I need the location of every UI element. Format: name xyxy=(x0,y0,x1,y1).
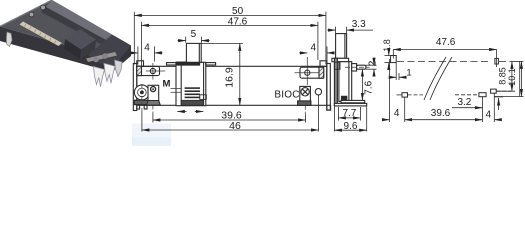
photo: flat terminal 3 xyxy=(115,60,123,77)
photo: knob block front face xyxy=(80,40,96,60)
dim 47.6 ext right xyxy=(317,22,319,60)
side knob inner line xyxy=(344,34,346,59)
photo: groove band xyxy=(41,7,126,56)
right mounting lug xyxy=(300,67,324,78)
side body xyxy=(339,62,352,102)
dim 7.7 line xyxy=(338,117,360,119)
front view labels xyxy=(144,6,316,132)
fp pad bottom-right 1 xyxy=(479,93,486,97)
dim 3.3 arrows xyxy=(327,29,335,31)
photo: left end bevel xyxy=(0,0,52,27)
photo: knob block top xyxy=(65,29,96,50)
fp pad top-left xyxy=(391,56,397,63)
dim 46 line xyxy=(142,129,319,131)
svg-text:4: 4 xyxy=(311,42,317,53)
dim 50 ext left xyxy=(133,12,135,65)
fp dim 4 left arrow xyxy=(383,119,389,121)
side knob xyxy=(336,34,347,59)
travel arrow left xyxy=(177,111,186,113)
fp pad top-right xyxy=(495,58,499,64)
blue watermark patch xyxy=(132,124,171,147)
washer outer circle xyxy=(134,85,149,100)
svg-text:4: 4 xyxy=(144,43,150,54)
knob xyxy=(186,43,201,62)
right bracket foot xyxy=(327,105,331,110)
side pin base xyxy=(352,64,357,71)
photo: screw 1 xyxy=(29,12,34,17)
dim 9.6 ticks xyxy=(333,106,335,131)
body outline xyxy=(137,66,327,105)
carriage wing left xyxy=(167,63,177,65)
side pin blade xyxy=(357,65,366,69)
fp dim 1 ticks xyxy=(395,63,397,80)
svg-text:3.3: 3.3 xyxy=(352,19,366,30)
footprint labels xyxy=(382,37,517,121)
fp dim 10.1 exts xyxy=(511,60,523,62)
svg-text:4: 4 xyxy=(394,108,400,119)
svg-text:1.8: 1.8 xyxy=(382,39,392,52)
dim 5 arrow left xyxy=(178,40,186,42)
right bracket top tab xyxy=(320,61,327,67)
carriage bottom strip xyxy=(181,100,203,105)
washer center dot xyxy=(140,91,144,95)
dim 7.6 line xyxy=(361,69,363,100)
svg-text:2: 2 xyxy=(368,60,379,66)
photo: left terminal pin xyxy=(7,32,13,47)
fp dim 1.8 exts xyxy=(385,55,391,57)
fp dim 1 arrows xyxy=(390,76,396,78)
fp pad bl ext down xyxy=(404,97,406,122)
photo: end bracket block xyxy=(88,35,131,70)
fp ext h bottom right xyxy=(494,96,503,98)
washer leg 1 xyxy=(137,105,140,109)
left bracket top tab xyxy=(137,61,144,67)
side pin centerline xyxy=(345,66,370,68)
side labels xyxy=(342,19,378,132)
fp pad bl centerline xyxy=(397,94,403,96)
photo: fork terminal 1 xyxy=(94,67,105,87)
right bracket outer plate xyxy=(327,64,331,111)
photo: slide potentiometer body top face xyxy=(0,0,131,58)
dim 4 right tick xyxy=(326,46,328,63)
dim 50 line xyxy=(134,14,326,16)
fp dim 3.2 line xyxy=(452,107,483,109)
right lug centerline v xyxy=(306,57,308,85)
right pin dashed centerline xyxy=(304,106,306,115)
left lug centerline h xyxy=(146,70,165,72)
right pin hole cross 2 xyxy=(302,89,308,95)
svg-text:BIOC: BIOC xyxy=(274,89,299,100)
right pin flare xyxy=(298,101,311,106)
washer middle circle xyxy=(138,88,147,97)
svg-text:4: 4 xyxy=(486,109,492,120)
left terminal pin body xyxy=(148,85,159,102)
photo: screw 2 xyxy=(41,5,46,10)
fp break line 2 xyxy=(430,57,452,100)
carriage wing right xyxy=(206,63,216,65)
slider carriage box xyxy=(176,62,206,105)
fp dim 4 right arrows xyxy=(494,119,501,121)
fp left edge xyxy=(389,59,391,122)
svg-text:3.2: 3.2 xyxy=(457,97,471,108)
left lug hole xyxy=(150,68,155,73)
side flange xyxy=(332,58,349,61)
left lug centerline v xyxy=(152,63,154,80)
left pin dashed centerline xyxy=(152,106,154,115)
dim 4 left tick a xyxy=(137,46,139,64)
dim 47.6 line xyxy=(141,24,318,26)
svg-text:5: 5 xyxy=(191,29,197,40)
dim 50 ext right xyxy=(325,12,327,65)
photo: far rail band xyxy=(46,0,131,51)
dim 46 ext left xyxy=(141,112,143,132)
fp right edge xyxy=(519,61,521,96)
dim 46 ext right xyxy=(317,95,319,132)
side bracket plate xyxy=(334,58,337,106)
svg-text:50: 50 xyxy=(232,6,244,17)
fp break line 1 xyxy=(424,57,446,100)
thin lines: centerlines, extensions xyxy=(142,57,319,115)
dim 7.7 ticks xyxy=(337,107,339,121)
svg-text:9.6: 9.6 xyxy=(344,121,358,132)
dim 16.9 line xyxy=(239,43,241,105)
wiper step xyxy=(200,95,207,100)
fp pad bottom-right 2 xyxy=(491,89,497,93)
carriage inner wall left xyxy=(180,62,182,105)
side fold dark block xyxy=(342,96,347,100)
side bottom plate xyxy=(334,103,366,106)
fp pad br exts down xyxy=(482,97,484,122)
photo: track stripe xyxy=(20,22,63,47)
photo: body right end face xyxy=(110,46,131,73)
fp dim 10.1 line xyxy=(520,61,522,96)
photo: knob block left face xyxy=(64,39,81,59)
dim 39.6 ext left xyxy=(152,114,154,123)
body round hole right xyxy=(315,89,321,95)
dim 16.9 ext top xyxy=(201,42,243,44)
dim 39.6 line xyxy=(153,119,306,121)
dim 4 right arrows xyxy=(299,52,307,54)
svg-text:47.6: 47.6 xyxy=(228,17,248,28)
dim 5 arrow right xyxy=(201,40,209,42)
fp top edge dashed xyxy=(397,60,491,62)
right lug hatch strip xyxy=(319,67,324,78)
svg-text:46: 46 xyxy=(229,120,241,132)
fp pad bottom-left xyxy=(402,93,408,97)
svg-text:10.1: 10.1 xyxy=(507,68,517,86)
side view dimensions xyxy=(327,27,376,132)
carriage inner wall right xyxy=(203,62,205,105)
fp dim 39.6 line xyxy=(405,119,483,121)
photo: rivet 1 xyxy=(93,57,99,63)
fp dim 47.6 ext right xyxy=(496,50,498,68)
wiper hatch block xyxy=(185,87,200,98)
knob inner line xyxy=(198,43,200,62)
left terminal pin hole xyxy=(151,87,156,92)
dim 9.6 line xyxy=(334,129,366,131)
left terminal pin flare xyxy=(147,101,161,106)
svg-text:16.9: 16.9 xyxy=(224,67,236,88)
fp up arrow xyxy=(498,98,500,110)
fp bottom edge xyxy=(494,96,520,98)
dim 39.6 ext right xyxy=(305,115,307,123)
fp dim 47.6 line xyxy=(393,49,496,51)
dim 4 left arrows xyxy=(130,52,138,54)
svg-text:M: M xyxy=(163,78,171,89)
photo: rivet 2 xyxy=(102,53,108,59)
dim 4 left tick b xyxy=(153,46,155,61)
fp dim 47.6 ext left xyxy=(392,50,394,59)
washer dashed centerline xyxy=(141,84,143,112)
side foot strip xyxy=(341,100,365,102)
photo: end bracket edge highlight xyxy=(86,52,117,62)
left lug hatch strip xyxy=(137,66,142,75)
dim 5 tick left xyxy=(185,37,187,43)
left bracket outer plate xyxy=(133,64,137,111)
svg-text:47.6: 47.6 xyxy=(436,37,456,48)
travel arrow right xyxy=(195,111,204,113)
side body inner line xyxy=(348,62,350,102)
right pin hole cross 1 xyxy=(302,89,308,95)
dim 47.6 ext left xyxy=(140,22,142,66)
fp dim 8.85 line xyxy=(511,61,513,91)
photo: body front face xyxy=(0,27,112,73)
right terminal pin hole circle xyxy=(301,88,309,96)
photo: track dashes xyxy=(25,24,57,43)
dim 2 ext lines xyxy=(366,64,377,66)
dim 3.3 ticks xyxy=(335,27,337,33)
svg-text:7.6: 7.6 xyxy=(364,80,375,94)
fp pads dashes xyxy=(455,94,479,96)
side fold detail top xyxy=(334,62,340,69)
left terminal pin hole dot xyxy=(152,88,154,90)
svg-text:7.7: 7.7 xyxy=(342,108,356,119)
right terminal pin body xyxy=(300,86,311,105)
dim 2 arrows xyxy=(373,58,375,66)
left mounting lug xyxy=(137,66,160,75)
photo: fork terminal 2 xyxy=(104,63,115,83)
washer pad xyxy=(134,100,149,105)
right lug centerline h xyxy=(295,72,319,74)
fp dim 1.8 arrows xyxy=(388,50,390,56)
washer leg 2 xyxy=(144,105,147,109)
dim 5 tick right xyxy=(200,37,202,43)
carriage wing bar xyxy=(177,62,200,65)
svg-text:39.6: 39.6 xyxy=(431,108,451,119)
fp dim 8.85 ext xyxy=(496,90,515,92)
svg-text:1: 1 xyxy=(406,67,411,78)
M marks xyxy=(171,88,182,90)
right lug hole xyxy=(305,70,310,75)
svg-text:8.85: 8.85 xyxy=(498,67,508,85)
